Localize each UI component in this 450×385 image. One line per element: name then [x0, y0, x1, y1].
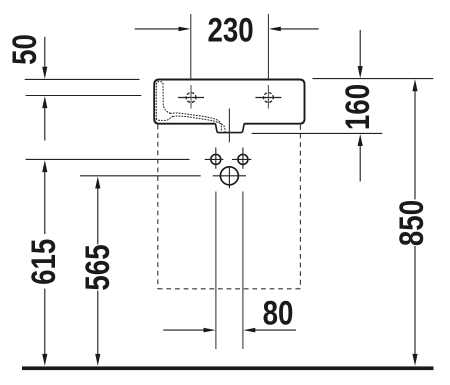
svg-text:230: 230	[207, 11, 253, 49]
dim 230 right arrow	[280, 28, 319, 30]
dashed pedestal outline bottom	[158, 288, 301, 290]
drain hole circle	[220, 167, 238, 185]
svg-text:160: 160	[338, 84, 376, 130]
fixing hole right crosshair	[232, 158, 252, 160]
dim 565 up arrow	[95, 177, 100, 189]
tap hole left: dashed circle	[186, 93, 196, 103]
drain hole crosshair	[213, 175, 246, 177]
dim 160 down arrow	[359, 30, 361, 68]
dim 565 lower shaft + down arrow	[97, 291, 99, 355]
fixing hole right circle	[238, 154, 248, 164]
tap hole right: cross	[255, 97, 281, 99]
svg-text:850: 850	[393, 200, 431, 246]
dim 80 right arrow	[243, 328, 255, 333]
dim 850 lower shaft + down arrow	[414, 246, 416, 355]
dim 160 up arrow	[359, 145, 361, 182]
basin interior hidden contour (dotted finger)	[156, 82, 170, 119]
dim 230 left arrow	[135, 28, 180, 30]
dim 160 top reference line	[313, 78, 434, 80]
dim 160 bottom reference line	[252, 132, 383, 134]
dim 50 up arrow	[44, 107, 46, 141]
dotted lower arm to drain	[173, 116, 225, 132]
drain tab	[215, 123, 244, 132]
dim 80 extension line right	[242, 192, 244, 350]
dim 565 reference line	[80, 175, 201, 177]
svg-text:50: 50	[5, 34, 43, 65]
dim 615 lower shaft + down arrow	[44, 289, 46, 355]
dashed pedestal outline right	[299, 125, 301, 289]
dim 50 bottom reference line	[26, 95, 142, 97]
dim 80 left arrow	[163, 329, 204, 331]
drain centerline	[228, 109, 230, 143]
dim 615 reference line	[26, 158, 190, 160]
svg-text:80: 80	[263, 294, 294, 332]
fixing hole left crosshair	[205, 158, 224, 160]
dim 850 up arrow	[412, 79, 417, 91]
tap hole left: cross	[178, 97, 204, 99]
dim 230 extension line left	[190, 14, 192, 79]
dotted upper arm to drain	[171, 113, 222, 132]
dashed pedestal outline left	[157, 125, 159, 289]
fixing hole left circle	[211, 154, 221, 164]
dotted finger bottom curve	[156, 116, 173, 120]
dim 50 down arrow	[44, 37, 46, 68]
dim 615 up arrow	[42, 160, 47, 172]
dim 80 extension line left	[215, 192, 217, 350]
svg-text:615: 615	[24, 239, 62, 285]
dim 230 extension line right	[267, 14, 269, 79]
ground line	[22, 366, 434, 370]
dim 50 top reference line	[25, 78, 140, 80]
svg-text:565: 565	[78, 244, 116, 290]
washbasin outer outline	[154, 80, 304, 124]
tap hole right: dashed circle	[264, 93, 274, 103]
